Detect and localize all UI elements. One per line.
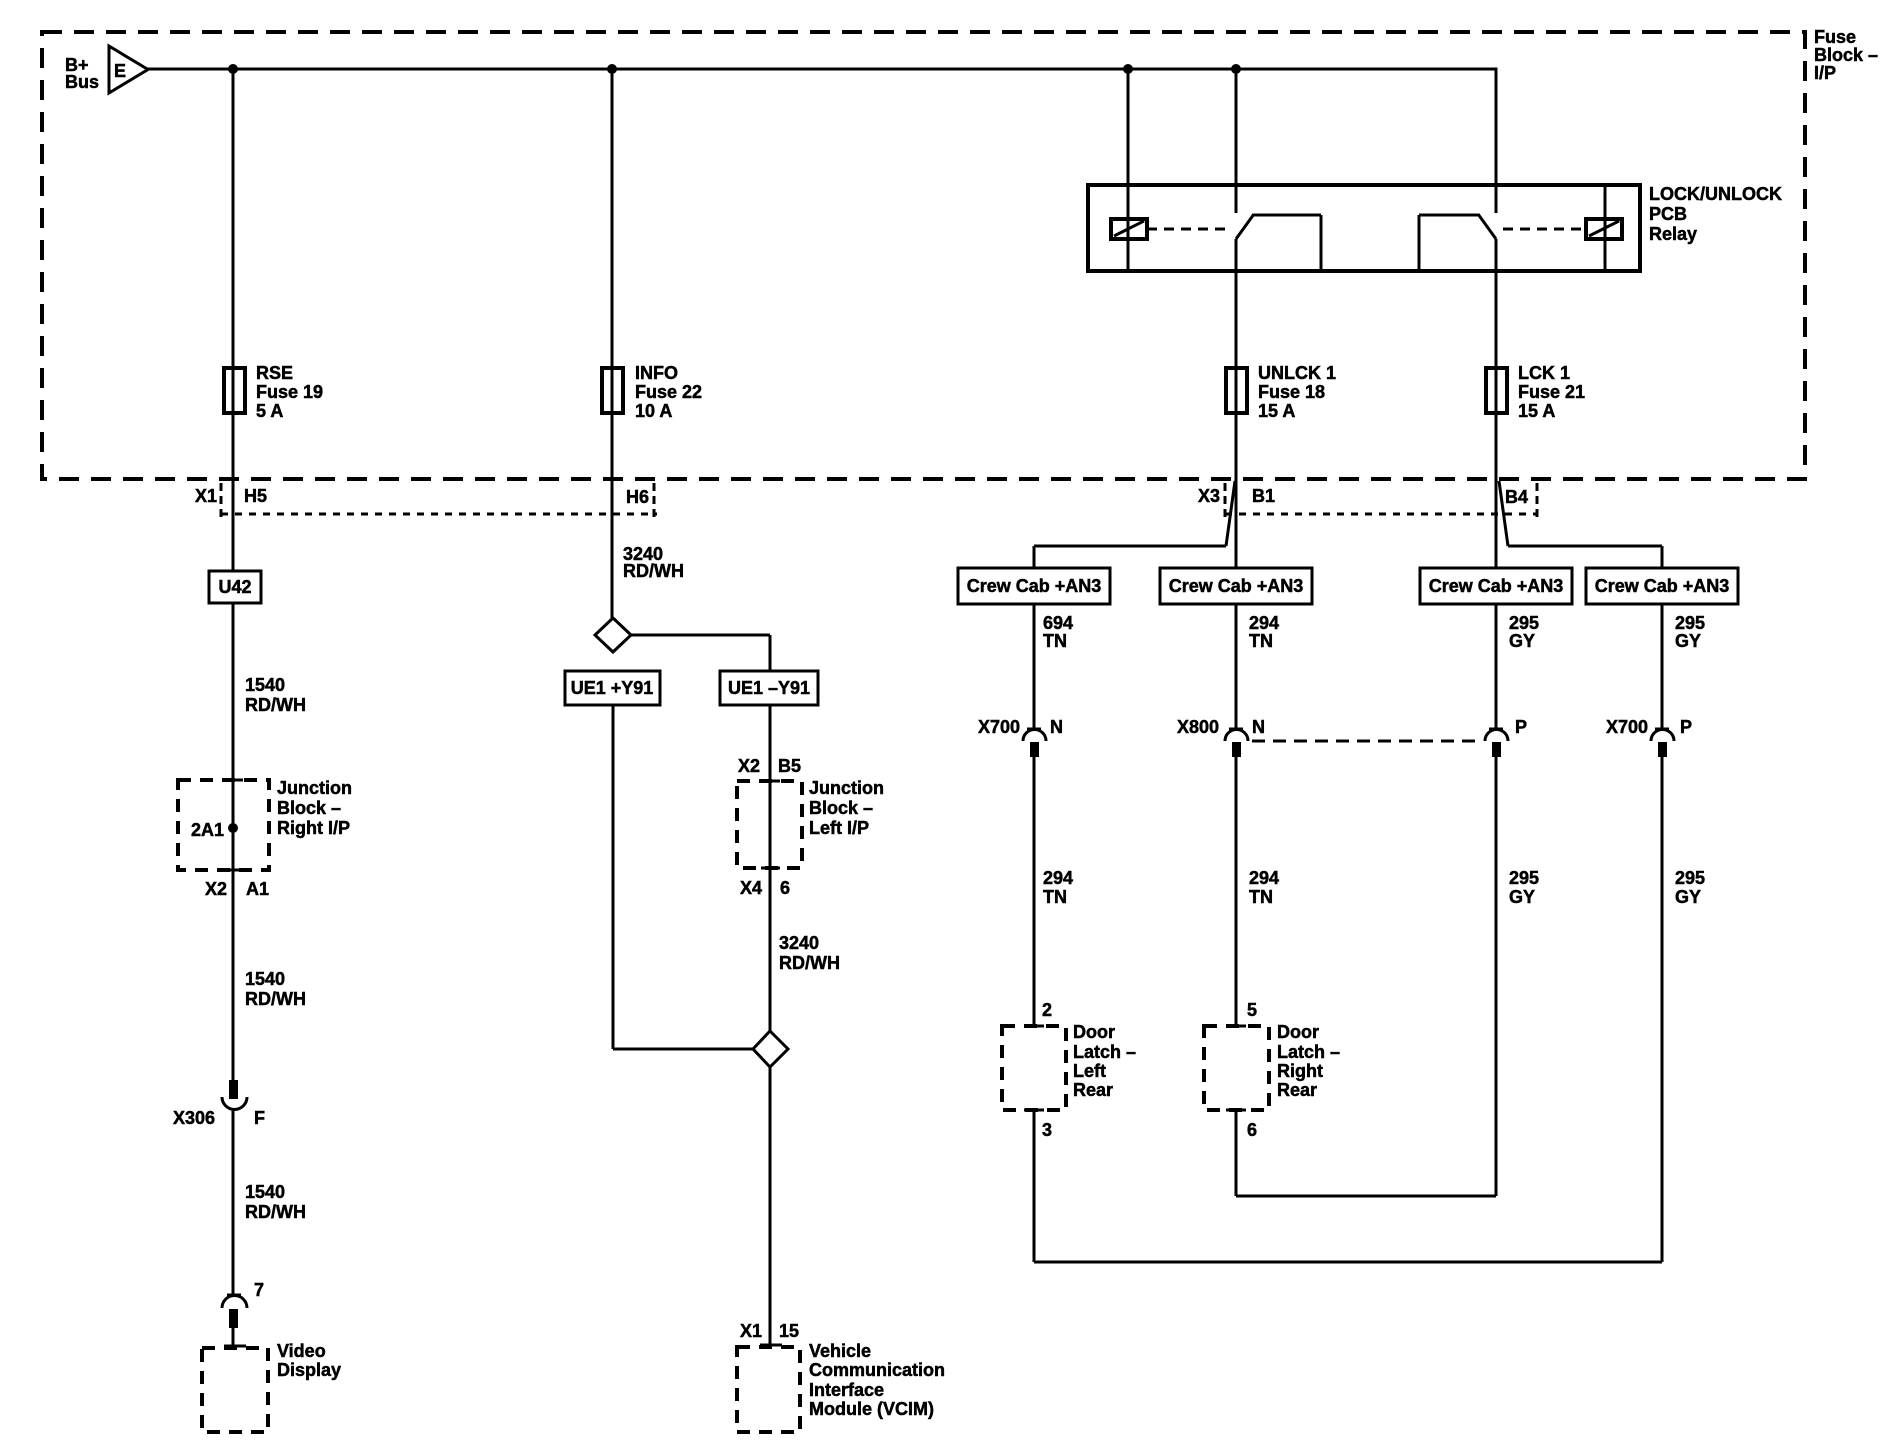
svg-text:X700: X700 — [978, 717, 1020, 737]
svg-text:295: 295 — [1509, 868, 1539, 888]
svg-text:3: 3 — [1042, 1120, 1052, 1140]
svg-text:Relay: Relay — [1649, 224, 1697, 244]
svg-text:RD/WH: RD/WH — [623, 561, 684, 581]
svg-text:P: P — [1515, 717, 1527, 737]
svg-text:UE1 +Y91: UE1 +Y91 — [571, 678, 654, 698]
svg-text:PCB: PCB — [1649, 204, 1687, 224]
svg-text:Fuse 21: Fuse 21 — [1518, 382, 1585, 402]
svg-text:X306: X306 — [173, 1108, 215, 1128]
svg-text:RD/WH: RD/WH — [779, 953, 840, 973]
svg-text:E: E — [114, 61, 126, 81]
svg-text:B5: B5 — [778, 756, 801, 776]
svg-text:295: 295 — [1509, 613, 1539, 633]
svg-text:B4: B4 — [1505, 487, 1528, 507]
svg-text:H5: H5 — [244, 486, 267, 506]
svg-text:Block –: Block – — [809, 798, 873, 818]
svg-text:2A1: 2A1 — [191, 820, 224, 840]
svg-text:295: 295 — [1675, 868, 1705, 888]
svg-text:H6: H6 — [626, 487, 649, 507]
svg-text:15 A: 15 A — [1518, 401, 1555, 421]
svg-text:Crew Cab +AN3: Crew Cab +AN3 — [1595, 576, 1730, 596]
svg-text:Latch –: Latch – — [1277, 1042, 1340, 1062]
svg-text:15 A: 15 A — [1258, 401, 1295, 421]
svg-text:Crew Cab +AN3: Crew Cab +AN3 — [1429, 576, 1564, 596]
svg-text:B1: B1 — [1252, 486, 1275, 506]
svg-text:Fuse 19: Fuse 19 — [256, 382, 323, 402]
svg-text:TN: TN — [1249, 887, 1273, 907]
svg-text:TN: TN — [1249, 631, 1273, 651]
svg-text:GY: GY — [1509, 631, 1535, 651]
svg-text:Junction: Junction — [809, 778, 884, 798]
svg-text:5 A: 5 A — [256, 401, 283, 421]
svg-text:Latch –: Latch – — [1073, 1042, 1136, 1062]
svg-text:UE1 –Y91: UE1 –Y91 — [728, 678, 810, 698]
svg-text:X800: X800 — [1177, 717, 1219, 737]
svg-text:Display: Display — [277, 1360, 341, 1380]
svg-text:10 A: 10 A — [635, 401, 672, 421]
svg-text:Junction: Junction — [277, 778, 352, 798]
svg-text:X2: X2 — [738, 756, 760, 776]
svg-text:F: F — [254, 1108, 265, 1128]
svg-text:X1: X1 — [195, 486, 217, 506]
svg-text:Left: Left — [1073, 1061, 1106, 1081]
svg-text:X1: X1 — [740, 1321, 762, 1341]
svg-text:N: N — [1252, 717, 1265, 737]
svg-text:LOCK/UNLOCK: LOCK/UNLOCK — [1649, 184, 1782, 204]
svg-text:Right: Right — [1277, 1061, 1323, 1081]
svg-text:Fuse 18: Fuse 18 — [1258, 382, 1325, 402]
svg-text:2: 2 — [1042, 1000, 1052, 1020]
svg-text:Block –: Block – — [1814, 45, 1878, 65]
svg-text:Block –: Block – — [277, 798, 341, 818]
svg-text:U42: U42 — [218, 577, 251, 597]
svg-text:Interface: Interface — [809, 1380, 884, 1400]
svg-text:INFO: INFO — [635, 363, 678, 383]
svg-text:RD/WH: RD/WH — [245, 695, 306, 715]
svg-text:6: 6 — [780, 878, 790, 898]
svg-text:Fuse 22: Fuse 22 — [635, 382, 702, 402]
svg-text:7: 7 — [254, 1280, 264, 1300]
svg-text:294: 294 — [1249, 868, 1279, 888]
svg-text:1540: 1540 — [245, 969, 285, 989]
svg-text:X3: X3 — [1198, 486, 1220, 506]
svg-text:6: 6 — [1247, 1120, 1257, 1140]
svg-text:UNLCK 1: UNLCK 1 — [1258, 363, 1336, 383]
svg-text:Vehicle: Vehicle — [809, 1341, 871, 1361]
svg-text:Module (VCIM): Module (VCIM) — [809, 1399, 934, 1419]
svg-text:15: 15 — [779, 1321, 799, 1341]
svg-text:3240: 3240 — [779, 933, 819, 953]
svg-text:LCK 1: LCK 1 — [1518, 363, 1570, 383]
svg-text:295: 295 — [1675, 613, 1705, 633]
svg-text:Door: Door — [1073, 1022, 1115, 1042]
svg-text:Rear: Rear — [1073, 1080, 1113, 1100]
svg-text:Door: Door — [1277, 1022, 1319, 1042]
svg-text:RSE: RSE — [256, 363, 293, 383]
svg-text:RD/WH: RD/WH — [245, 989, 306, 1009]
svg-text:TN: TN — [1043, 887, 1067, 907]
svg-text:RD/WH: RD/WH — [245, 1202, 306, 1222]
svg-text:5: 5 — [1247, 1000, 1257, 1020]
svg-text:N: N — [1050, 717, 1063, 737]
svg-text:X4: X4 — [740, 878, 762, 898]
svg-text:Right I/P: Right I/P — [277, 818, 350, 838]
svg-text:X2: X2 — [205, 879, 227, 899]
svg-text:Communication: Communication — [809, 1360, 945, 1380]
svg-text:Left I/P: Left I/P — [809, 818, 869, 838]
svg-text:694: 694 — [1043, 613, 1073, 633]
svg-text:1540: 1540 — [245, 1182, 285, 1202]
svg-text:GY: GY — [1675, 631, 1701, 651]
svg-text:294: 294 — [1249, 613, 1279, 633]
svg-text:Crew Cab +AN3: Crew Cab +AN3 — [1169, 576, 1304, 596]
svg-text:Crew Cab +AN3: Crew Cab +AN3 — [967, 576, 1102, 596]
svg-text:Rear: Rear — [1277, 1080, 1317, 1100]
svg-text:TN: TN — [1043, 631, 1067, 651]
svg-text:Bus: Bus — [65, 72, 99, 92]
svg-text:I/P: I/P — [1814, 63, 1836, 83]
svg-text:Fuse: Fuse — [1814, 27, 1856, 47]
svg-text:GY: GY — [1675, 887, 1701, 907]
svg-text:GY: GY — [1509, 887, 1535, 907]
svg-text:P: P — [1680, 717, 1692, 737]
svg-text:X700: X700 — [1606, 717, 1648, 737]
svg-text:A1: A1 — [246, 879, 269, 899]
svg-text:1540: 1540 — [245, 675, 285, 695]
svg-text:294: 294 — [1043, 868, 1073, 888]
svg-text:Video: Video — [277, 1341, 326, 1361]
